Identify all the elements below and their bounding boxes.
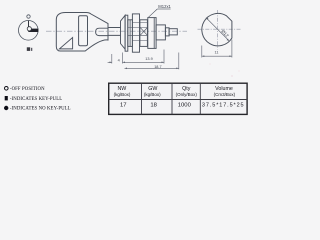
end view: vertical centerline (216, 10, 218, 50)
svg-text:11: 11 (215, 50, 219, 54)
thick key slot bar (28, 29, 38, 32)
icon caption (tiny CJK-like blob) (27, 47, 33, 51)
washer/ring section (128, 20, 133, 47)
table data texts (120, 102, 244, 108)
svg-text:18.7: 18.7 (154, 65, 161, 69)
svg-text:4: 4 (118, 58, 120, 62)
key triangle cutout (59, 38, 72, 49)
collar inner edge (153, 18, 155, 49)
svg-text:-INDICATES KEY-PULL: -INDICATES KEY-PULL (10, 97, 62, 102)
svg-text:-OFF POSITION: -OFF POSITION (10, 87, 45, 92)
rear block (156, 25, 165, 40)
collar section (148, 18, 156, 49)
key hole rectangle (79, 16, 88, 46)
svg-text:17: 17 (120, 103, 127, 109)
key channel cross pattern (140, 28, 147, 36)
spec table: column dividers (141, 83, 143, 114)
switch bezel (trapezoid) (121, 15, 126, 49)
key head/blade junction plate (107, 24, 109, 40)
dim 18.7: line and arrows (125, 67, 179, 69)
main horizontal centerline (46, 30, 187, 32)
key head outline (56, 13, 108, 52)
spec table: outer border (109, 83, 247, 114)
svg-text:13.9: 13.9 (145, 57, 152, 61)
thread leader line (149, 9, 158, 17)
table header texts (114, 86, 236, 97)
svg-text:-INDICATES NO KEY-PULL: -INDICATES NO KEY-PULL (10, 107, 71, 112)
end view: body circle with right flat (202, 13, 232, 45)
threaded barrel section (140, 20, 148, 47)
dim 4: extension lines (111, 54, 113, 64)
washer divider (129, 20, 131, 47)
dim 4: outside arrow (108, 61, 112, 63)
vertical position line (28, 21, 30, 31)
svg-text:18: 18 (150, 103, 157, 109)
end view: diameter dimension line (206, 18, 229, 41)
key tip capsule (96, 28, 108, 35)
key blade (108, 28, 120, 36)
legend: no key-pull symbol (4, 106, 8, 110)
svg-text:37.5*17.5*25: 37.5*17.5*25 (202, 102, 245, 108)
key face icon (rotation diagram) (19, 15, 39, 40)
svg-text:(Only/Box): (Only/Box) (176, 92, 198, 97)
face circle (19, 21, 39, 41)
legend: key-pull symbol (5, 96, 8, 100)
svg-text:1000: 1000 (178, 103, 192, 109)
svg-text:M12x1: M12x1 (158, 4, 171, 9)
svg-text:(kg/Box): (kg/Box) (114, 92, 131, 97)
legend: OFF position symbol (5, 87, 9, 91)
svg-text:(kg/Box): (kg/Box) (144, 92, 161, 97)
top marker circle (27, 15, 30, 18)
dim 11: line and arrows (202, 55, 232, 57)
shaft stub (165, 28, 169, 36)
end view: horizontal centerline (198, 28, 241, 30)
svg-text:(Cm3/Box): (Cm3/Box) (214, 92, 236, 97)
hex nut section (132, 14, 139, 52)
dim 18.7: right extension line (178, 53, 180, 70)
dim 13.9: line and arrows (123, 61, 165, 63)
key channel lines (128, 27, 148, 29)
switch flange plate (125, 15, 128, 51)
spec table: header divider (109, 99, 247, 101)
dim 11: extension lines (201, 46, 203, 58)
shaft rod (169, 29, 177, 35)
center pivot circle (27, 27, 31, 31)
barrel thread lines (132, 39, 147, 41)
scan noise specks (231, 75, 232, 76)
dim 13.9: right extension line (163, 50, 165, 64)
